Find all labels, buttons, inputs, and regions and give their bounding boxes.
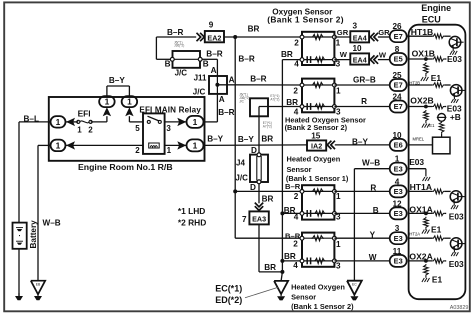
svg-text:BR: BR xyxy=(264,263,276,272)
svg-text:A7(*2): A7(*2) xyxy=(263,124,272,128)
svg-text:1: 1 xyxy=(127,97,132,107)
svg-text:J/C: J/C xyxy=(193,87,206,96)
svg-text:J4: J4 xyxy=(236,158,245,167)
svg-text:E03: E03 xyxy=(447,54,462,64)
svg-text:Sensor: Sensor xyxy=(291,292,316,301)
svg-text:B–R: B–R xyxy=(285,231,301,240)
svg-text:24: 24 xyxy=(392,93,402,102)
svg-text:GR–B: GR–B xyxy=(353,76,376,85)
svg-text:4: 4 xyxy=(395,177,400,186)
svg-text:+B: +B xyxy=(450,112,461,122)
svg-text:EC(*1): EC(*1) xyxy=(215,284,242,294)
svg-text:HT1A: HT1A xyxy=(410,182,432,192)
svg-text:3: 3 xyxy=(353,22,358,31)
svg-text:E3: E3 xyxy=(394,234,403,243)
svg-text:BR: BR xyxy=(262,194,274,203)
svg-text:B–R: B–R xyxy=(218,108,234,117)
svg-text:BR: BR xyxy=(248,24,260,33)
svg-text:A: A xyxy=(211,66,217,75)
svg-text:GR: GR xyxy=(378,28,390,37)
svg-text:E3: E3 xyxy=(394,257,403,266)
svg-text:OX2B: OX2B xyxy=(410,95,433,105)
svg-text:E03: E03 xyxy=(449,212,464,222)
svg-text:1: 1 xyxy=(193,140,198,150)
svg-text:BR: BR xyxy=(261,135,273,144)
svg-text:B: B xyxy=(373,206,379,215)
svg-text:R: R xyxy=(370,183,376,192)
svg-text:W: W xyxy=(379,50,387,59)
svg-text:Heated Oxygen: Heated Oxygen xyxy=(287,154,341,163)
svg-text:25: 25 xyxy=(392,71,402,80)
svg-text:ECU: ECU xyxy=(422,14,441,24)
svg-text:2: 2 xyxy=(88,126,93,135)
svg-text:E3: E3 xyxy=(394,187,403,196)
svg-text:E3: E3 xyxy=(394,164,403,173)
svg-text:E1: E1 xyxy=(432,274,443,284)
svg-text:BR: BR xyxy=(284,252,296,261)
svg-text:BR: BR xyxy=(281,50,293,59)
svg-text:BR: BR xyxy=(284,206,296,215)
svg-text:15: 15 xyxy=(311,132,321,141)
svg-text:EA3: EA3 xyxy=(252,214,266,223)
svg-text:8: 8 xyxy=(395,45,400,54)
svg-text:J/C: J/C xyxy=(175,69,188,78)
svg-text:2: 2 xyxy=(135,146,140,155)
svg-text:1: 1 xyxy=(56,117,61,127)
svg-text:(Bank 1 Sensor 1): (Bank 1 Sensor 1) xyxy=(286,174,349,183)
svg-text:1: 1 xyxy=(336,86,341,95)
svg-text:HT2A: HT2A xyxy=(409,231,420,236)
svg-text:BR: BR xyxy=(286,98,298,107)
svg-text:1: 1 xyxy=(395,155,400,164)
svg-text:1: 1 xyxy=(336,240,341,249)
svg-text:1: 1 xyxy=(193,117,198,127)
svg-text:J36(*2): J36(*2) xyxy=(174,44,184,48)
svg-text:12: 12 xyxy=(392,199,402,208)
svg-text:EB: EB xyxy=(36,282,41,286)
svg-text:EFI MAIN Relay: EFI MAIN Relay xyxy=(139,106,201,115)
svg-text:2: 2 xyxy=(293,239,298,248)
svg-text:E1: E1 xyxy=(429,123,435,128)
svg-text:E7: E7 xyxy=(394,102,403,111)
svg-text:*1 LHD: *1 LHD xyxy=(178,206,205,216)
svg-text:11: 11 xyxy=(393,247,402,256)
svg-text:Y: Y xyxy=(370,230,376,239)
svg-text:J11: J11 xyxy=(194,73,207,82)
svg-text:J/C: J/C xyxy=(235,174,248,183)
svg-text:EA2: EA2 xyxy=(207,33,221,42)
svg-text:26: 26 xyxy=(392,22,402,31)
svg-text:1: 1 xyxy=(105,97,110,107)
svg-text:10: 10 xyxy=(392,131,402,140)
svg-text:OX1B: OX1B xyxy=(412,49,435,59)
svg-text:E3: E3 xyxy=(394,209,403,218)
svg-text:(Bank 1 Sensor 2): (Bank 1 Sensor 2) xyxy=(267,15,344,25)
svg-text:IA2: IA2 xyxy=(311,142,322,151)
svg-text:EA4: EA4 xyxy=(353,56,367,65)
svg-text:E03: E03 xyxy=(449,259,464,269)
svg-text:(Bank 2 Sensor 2): (Bank 2 Sensor 2) xyxy=(285,123,348,132)
svg-text:5: 5 xyxy=(135,124,140,133)
svg-text:3: 3 xyxy=(336,262,341,271)
svg-text:MREL: MREL xyxy=(413,136,425,141)
svg-text:E6: E6 xyxy=(394,141,403,150)
svg-text:B–R: B–R xyxy=(238,54,254,63)
svg-text:E5: E5 xyxy=(394,55,403,64)
svg-text:1: 1 xyxy=(336,192,341,201)
svg-text:9: 9 xyxy=(209,21,214,30)
svg-text:B–Y: B–Y xyxy=(207,135,223,144)
svg-text:3: 3 xyxy=(336,60,341,69)
svg-text:10: 10 xyxy=(352,44,362,53)
svg-text:1: 1 xyxy=(77,126,82,135)
svg-text:Engine: Engine xyxy=(421,3,451,13)
svg-text:4: 4 xyxy=(294,60,299,69)
svg-text:3: 3 xyxy=(395,224,400,233)
svg-text:B–Y: B–Y xyxy=(109,76,125,85)
svg-text:E1: E1 xyxy=(431,73,442,83)
svg-text:Heated Oxygen: Heated Oxygen xyxy=(291,283,345,292)
svg-text:A7(*2): A7(*2) xyxy=(270,97,279,101)
svg-text:EA4: EA4 xyxy=(353,33,367,42)
svg-text:B–R: B–R xyxy=(206,50,222,59)
svg-text:EC: EC xyxy=(352,282,357,286)
svg-text:ED(*2): ED(*2) xyxy=(215,295,242,305)
svg-text:3: 3 xyxy=(336,213,341,222)
svg-text:Engine Room No.1 R/B: Engine Room No.1 R/B xyxy=(78,162,173,172)
svg-text:B–Y: B–Y xyxy=(352,137,368,146)
svg-text:W–B: W–B xyxy=(362,159,380,168)
svg-text:1: 1 xyxy=(336,39,341,48)
svg-text:GR: GR xyxy=(337,28,349,37)
svg-text:E7: E7 xyxy=(394,81,403,90)
svg-text:2: 2 xyxy=(293,86,298,95)
svg-text:EFI: EFI xyxy=(78,109,91,119)
svg-text:7: 7 xyxy=(242,215,247,224)
svg-text:W–B: W–B xyxy=(43,218,61,227)
svg-text:B–Y: B–Y xyxy=(238,135,254,144)
svg-text:B: B xyxy=(203,59,209,68)
svg-text:D: D xyxy=(251,146,257,155)
svg-text:OX2A: OX2A xyxy=(409,252,432,262)
svg-text:B–R: B–R xyxy=(250,75,266,84)
svg-text:2: 2 xyxy=(294,192,299,201)
svg-text:E03: E03 xyxy=(409,157,424,167)
svg-text:HT1B: HT1B xyxy=(411,27,433,37)
svg-text:Battery: Battery xyxy=(29,220,38,249)
svg-text:1: 1 xyxy=(167,146,172,155)
svg-text:W: W xyxy=(340,50,348,59)
svg-text:W: W xyxy=(369,253,377,262)
svg-text:2: 2 xyxy=(294,39,299,48)
svg-text:A: A xyxy=(219,95,225,104)
svg-text:*2 RHD: *2 RHD xyxy=(178,218,206,228)
svg-text:J/C: J/C xyxy=(239,100,244,104)
svg-text:R: R xyxy=(361,97,367,106)
svg-text:D: D xyxy=(250,183,256,192)
svg-text:B: B xyxy=(165,60,171,69)
svg-text:B–R: B–R xyxy=(167,28,183,37)
svg-text:(Bank 1 Sensor 2): (Bank 1 Sensor 2) xyxy=(291,302,354,311)
svg-text:1: 1 xyxy=(56,140,61,150)
svg-text:3: 3 xyxy=(166,124,171,133)
svg-text:Sensor: Sensor xyxy=(287,165,312,174)
svg-text:B–R: B–R xyxy=(285,182,301,191)
svg-text:A: A xyxy=(229,76,235,85)
svg-text:E1: E1 xyxy=(431,225,442,235)
svg-text:A03829: A03829 xyxy=(450,305,469,311)
svg-text:4: 4 xyxy=(293,261,298,270)
svg-text:E7: E7 xyxy=(394,32,403,41)
